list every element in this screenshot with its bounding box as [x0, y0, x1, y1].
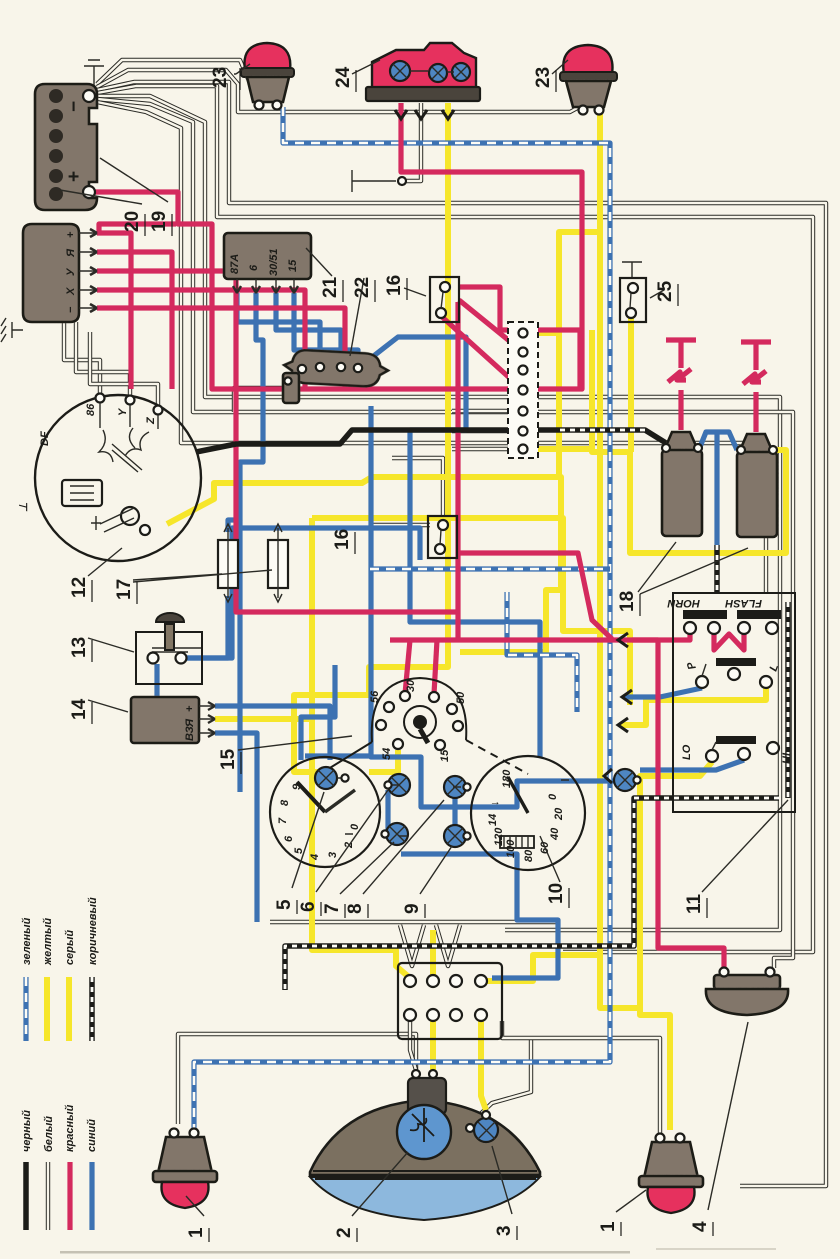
- svg-text:красный: красный: [64, 1104, 76, 1152]
- svg-text:черный: черный: [21, 1110, 33, 1152]
- svg-text:20: 20: [122, 211, 143, 232]
- svg-text:25: 25: [655, 280, 676, 302]
- svg-text:20: 20: [553, 807, 565, 821]
- svg-text:40: 40: [549, 827, 561, 841]
- svg-text:6: 6: [283, 835, 295, 842]
- svg-text:6: 6: [298, 901, 319, 912]
- svg-text:86: 86: [85, 403, 97, 416]
- svg-text:DF: DF: [39, 431, 51, 446]
- svg-text:18: 18: [617, 591, 638, 612]
- svg-text:Х: Х: [65, 287, 77, 296]
- svg-text:белый: белый: [43, 1116, 55, 1152]
- svg-text:14: 14: [487, 814, 499, 826]
- svg-text:−: −: [65, 306, 77, 313]
- svg-text:3: 3: [494, 1225, 515, 1236]
- svg-text:Z: Z: [145, 416, 157, 425]
- svg-text:80: 80: [523, 849, 535, 862]
- svg-text:+: +: [65, 231, 77, 238]
- svg-text:желтый: желтый: [42, 918, 54, 966]
- svg-text:9: 9: [402, 903, 423, 914]
- svg-text:15: 15: [287, 259, 299, 272]
- svg-text:+: +: [184, 705, 196, 712]
- svg-text:24: 24: [333, 66, 354, 88]
- svg-text:12: 12: [69, 577, 90, 598]
- svg-text:7: 7: [322, 903, 343, 914]
- svg-text:30: 30: [405, 679, 417, 692]
- svg-text:8: 8: [345, 903, 366, 914]
- svg-text:22: 22: [352, 277, 373, 298]
- svg-text:11: 11: [684, 893, 705, 914]
- svg-text:30/51: 30/51: [268, 248, 280, 276]
- svg-text:0: 0: [547, 793, 559, 800]
- svg-text:50: 50: [455, 691, 467, 704]
- svg-text:9: 9: [291, 783, 303, 790]
- svg-text:зеленый: зеленый: [21, 917, 33, 965]
- svg-text:4: 4: [309, 854, 321, 861]
- svg-text:5: 5: [274, 899, 295, 910]
- svg-text:15: 15: [218, 748, 239, 770]
- svg-text:Я: Я: [65, 248, 77, 258]
- svg-text:8: 8: [279, 799, 291, 806]
- svg-text:21: 21: [320, 276, 341, 298]
- svg-text:7: 7: [277, 817, 289, 824]
- svg-text:56: 56: [369, 690, 381, 703]
- svg-text:серый: серый: [64, 930, 76, 965]
- svg-text:FLASH: FLASH: [724, 597, 762, 609]
- svg-text:87A: 87A: [229, 254, 241, 274]
- svg-text:1: 1: [186, 1227, 207, 1238]
- svg-text:180: 180: [501, 769, 513, 788]
- svg-text:23: 23: [210, 67, 231, 88]
- svg-text:↓: ↓: [489, 801, 501, 807]
- svg-text:6: 6: [248, 264, 260, 271]
- svg-text:16: 16: [332, 529, 353, 550]
- svg-text:23: 23: [533, 67, 554, 88]
- svg-text:15: 15: [439, 749, 451, 762]
- svg-text:LO: LO: [681, 744, 693, 760]
- svg-text:+: +: [64, 171, 85, 182]
- svg-text:−: −: [64, 101, 85, 112]
- svg-text:100: 100: [505, 839, 517, 858]
- svg-text:синий: синий: [86, 1119, 98, 1152]
- svg-text:4: 4: [690, 1221, 711, 1232]
- svg-text:ВЗ: ВЗ: [184, 726, 196, 741]
- svg-text:13: 13: [69, 637, 90, 658]
- svg-text:14: 14: [69, 698, 90, 720]
- svg-text:0: 0: [349, 823, 361, 830]
- svg-text:54: 54: [381, 748, 393, 760]
- svg-text:10: 10: [546, 883, 567, 904]
- svg-text:16: 16: [384, 275, 405, 296]
- svg-text:2: 2: [334, 1227, 355, 1238]
- svg-text:120: 120: [493, 827, 505, 846]
- svg-text:⊥: ⊥: [18, 502, 30, 512]
- svg-text:коричневый: коричневый: [87, 897, 99, 965]
- svg-text:HI: HI: [781, 752, 793, 764]
- svg-text:17: 17: [114, 579, 135, 600]
- svg-text:3: 3: [327, 852, 339, 858]
- svg-text:HORN: HORN: [667, 597, 700, 609]
- svg-text:1: 1: [598, 1221, 619, 1232]
- svg-text:19: 19: [149, 211, 170, 232]
